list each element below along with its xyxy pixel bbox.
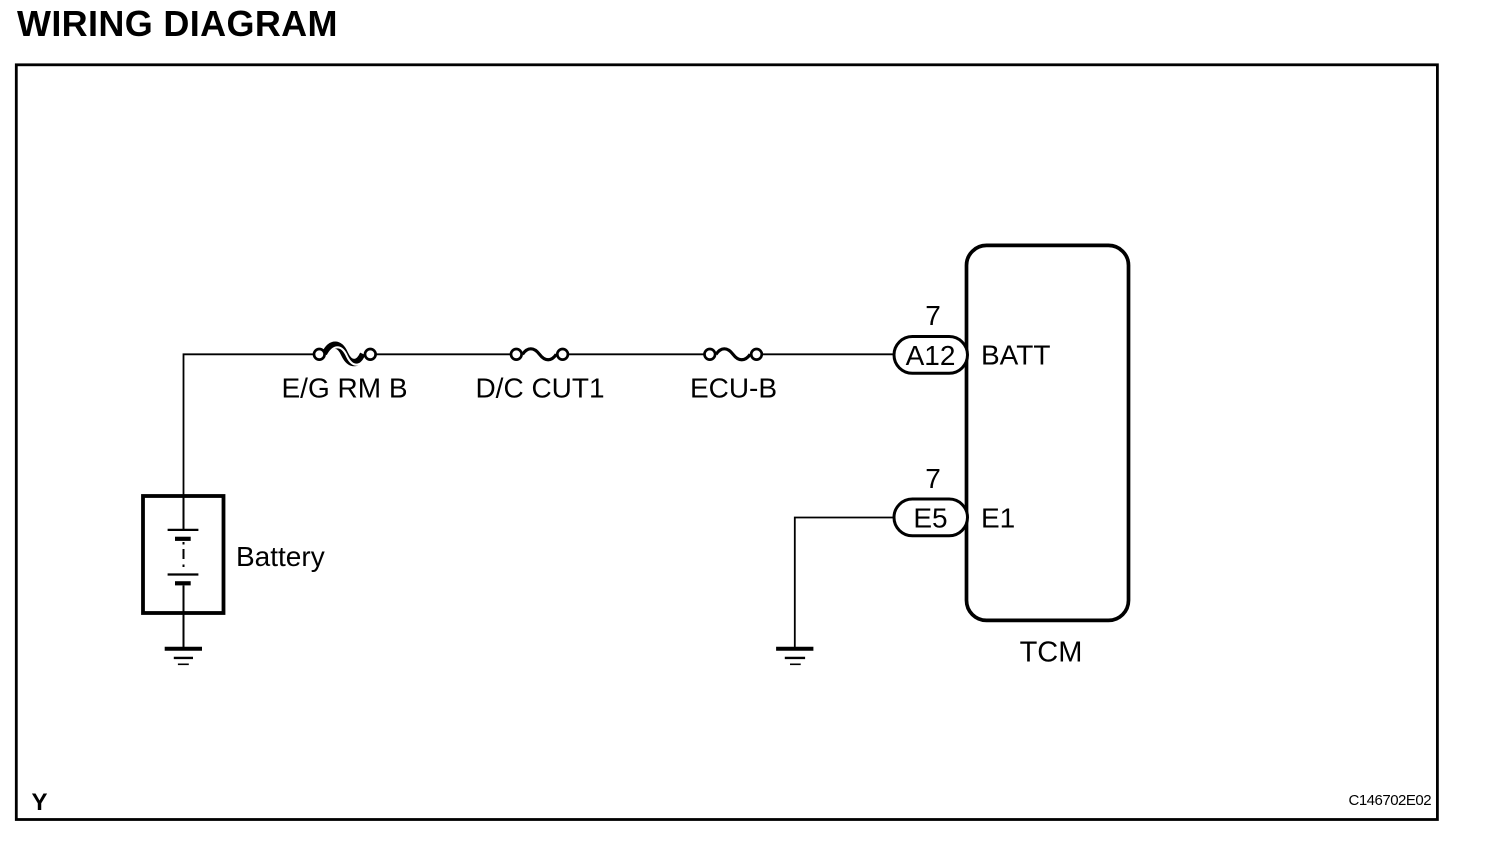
- svg-text:ECU-B: ECU-B: [690, 372, 777, 403]
- svg-text:Battery: Battery: [236, 541, 325, 572]
- svg-text:WIRING DIAGRAM: WIRING DIAGRAM: [17, 3, 338, 44]
- ground E5: [776, 649, 813, 665]
- wire battery to ground: [183, 613, 185, 648]
- svg-text:D/C CUT1: D/C CUT1: [475, 372, 604, 403]
- wire D/C CUT1 to ECU-B: [563, 353, 710, 355]
- svg-text:E1: E1: [981, 503, 1015, 534]
- fusible link E/G RM B: [314, 345, 376, 365]
- svg-text:Y: Y: [32, 789, 48, 816]
- svg-text:E/G RM B: E/G RM B: [281, 372, 407, 403]
- TCM U1: [967, 245, 1129, 620]
- wire E5 to ground: [795, 518, 896, 649]
- svg-text:C146702E02: C146702E02: [1349, 792, 1432, 809]
- svg-text:7: 7: [925, 300, 941, 331]
- wire ECU-B to connector A12: [757, 353, 897, 355]
- wire battery to fuse E/G RM B: [184, 354, 320, 496]
- ground battery: [165, 649, 202, 665]
- svg-text:A12: A12: [906, 340, 956, 371]
- fuse ECU-B: [705, 349, 762, 360]
- fuse D/C CUT1: [511, 349, 568, 360]
- svg-text:BATT: BATT: [981, 340, 1050, 371]
- svg-text:TCM: TCM: [1020, 637, 1083, 669]
- svg-text:E5: E5: [913, 502, 947, 533]
- wire E/G RM B to D/C CUT1: [370, 353, 516, 355]
- connector E5: [894, 499, 968, 536]
- svg-text:7: 7: [925, 463, 941, 494]
- battery BAT1: [143, 496, 224, 613]
- connector A12: [894, 337, 968, 374]
